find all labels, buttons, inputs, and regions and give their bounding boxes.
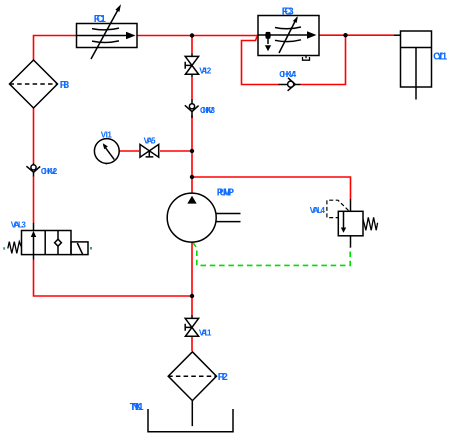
svg-text:FI3: FI3 xyxy=(60,80,70,91)
svg-text:VAL4: VAL4 xyxy=(310,206,326,215)
svg-text:CHKV2: CHKV2 xyxy=(41,167,58,176)
svg-text:CYL1: CYL1 xyxy=(433,52,448,63)
svg-text:CHKV4: CHKV4 xyxy=(279,70,296,79)
svg-text:VI1: VI1 xyxy=(101,131,113,140)
svg-text:VAL1: VAL1 xyxy=(199,328,212,337)
svg-text:FC1: FC1 xyxy=(94,14,106,25)
svg-text:VA5: VA5 xyxy=(144,137,157,146)
svg-text:VAL3: VAL3 xyxy=(11,221,27,230)
svg-text:CHKV3: CHKV3 xyxy=(200,106,216,115)
svg-text:FI2: FI2 xyxy=(218,372,228,383)
svg-text:PUMP: PUMP xyxy=(217,188,235,199)
svg-text:VAL2: VAL2 xyxy=(199,66,212,75)
svg-text:TNK1: TNK1 xyxy=(130,402,144,413)
svg-text:FC3: FC3 xyxy=(282,6,294,17)
